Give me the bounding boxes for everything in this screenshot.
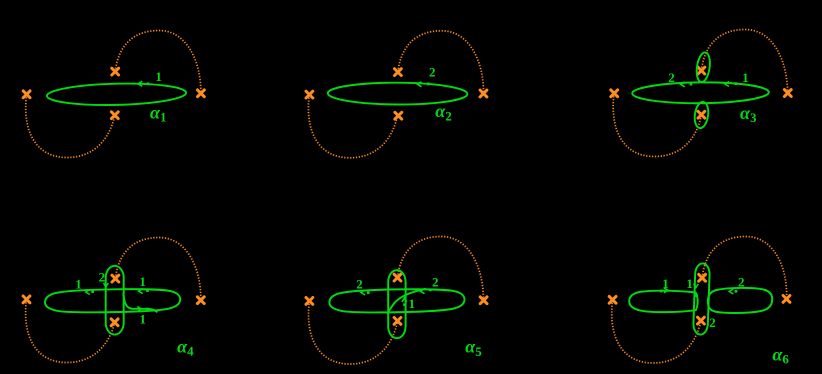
branch point X left P6 (609, 296, 616, 303)
svg-text:1: 1 (75, 277, 82, 292)
branch cut arc bottom P6 (612, 300, 701, 363)
svg-text:1: 1 (742, 70, 749, 85)
arrowhead left on alpha6 (664, 288, 668, 293)
svg-text:1: 1 (409, 296, 416, 311)
arrowhead bump on alpha4 (137, 307, 141, 312)
dot up on alpha5 (403, 303, 406, 306)
dot mid on alpha6 (695, 294, 698, 297)
branch point X right P6 (783, 296, 790, 303)
arrowhead right on alpha5 (421, 289, 425, 294)
curve alpha3 big ellipse (632, 82, 769, 104)
arrowhead right-top on alpha4 (139, 289, 143, 294)
svg-text:2: 2 (432, 274, 439, 289)
arrowhead up on alpha5 (402, 298, 407, 302)
curve alpha1 ellipse (47, 82, 187, 106)
svg-text:1: 1 (155, 69, 162, 84)
branch cut arc bottom P4 (26, 299, 115, 362)
branch point X right P2 (480, 90, 487, 97)
dot right on alpha6 (735, 290, 738, 293)
branch point X bottom P6 (698, 317, 705, 324)
branch point X bottom P2 (395, 112, 402, 119)
branch point X top P2 (395, 69, 402, 76)
svg-text:2: 2 (738, 274, 745, 289)
curve alpha4 vertical capsule (106, 266, 124, 335)
dot right-top on alpha4 (146, 289, 149, 292)
branch point X bottom P1 (111, 112, 118, 119)
branch point X left P4 (23, 296, 30, 303)
branch point X top P3 (698, 67, 705, 74)
branch point X left P5 (306, 298, 313, 305)
curve alpha3 bottom loop (693, 101, 710, 129)
arrowhead left on alpha3 (681, 82, 685, 87)
branch cut arc top P3 (701, 30, 787, 93)
branch point X top P1 (112, 68, 119, 75)
branch point X right P4 (197, 297, 204, 304)
curve alpha2 ellipse (328, 82, 468, 105)
arrowhead right on alpha3 (725, 82, 729, 87)
branch point X top P5 (394, 274, 401, 281)
branch cut arc top P4 (115, 238, 200, 301)
branch cut arc bottom P5 (309, 301, 398, 364)
svg-text:1: 1 (662, 276, 669, 291)
branch point X left P3 (611, 90, 618, 97)
svg-text:2: 2 (668, 70, 675, 85)
branch point X bottom P3 (698, 111, 705, 118)
curve alpha5 diagonal (387, 289, 426, 314)
branch point X right P1 (198, 90, 205, 97)
branch cut arc top P5 (398, 237, 484, 301)
dot on alpha2 (427, 83, 430, 86)
branch point X top P6 (699, 274, 706, 281)
curve alpha6 right lobe (708, 288, 772, 313)
branch point X top P4 (112, 275, 119, 282)
svg-text:1: 1 (686, 276, 693, 291)
svg-text:2: 2 (429, 65, 436, 80)
branch cut arc bottom P2 (308, 95, 397, 158)
dot left on alpha3 (690, 83, 693, 86)
branch point X bottom P5 (394, 318, 401, 325)
curve alpha3 top loop (695, 52, 712, 83)
dot right on alpha3 (734, 82, 737, 85)
branch point X left P1 (23, 91, 30, 98)
dot bump on alpha4 (146, 308, 149, 311)
arrowhead down mid on alpha6 (694, 284, 699, 288)
dot on alpha1 (147, 83, 150, 86)
curve alpha4 bump (123, 293, 157, 312)
branch cut arc top P1 (115, 31, 201, 94)
arrowhead left on alpha5 (361, 290, 365, 295)
svg-text:2: 2 (99, 269, 106, 284)
arrowhead on alpha1 (138, 81, 142, 86)
dot right on alpha5 (429, 289, 432, 292)
branch cut arc top P6 (702, 237, 786, 299)
branch cut arc top P2 (398, 31, 484, 94)
svg-text:1: 1 (140, 311, 147, 326)
arrowhead right on alpha6 (729, 289, 733, 294)
curve alpha5 vertical capsule (388, 270, 405, 338)
curve alpha4 horizontal ellipse (45, 289, 180, 312)
svg-text:1: 1 (139, 274, 146, 289)
arrowhead down on alpha4 capsule (104, 283, 109, 287)
curve alpha6 vertical capsule (693, 263, 710, 335)
dot left on alpha4 (91, 290, 94, 293)
curve alpha5 horizontal ellipse (329, 289, 464, 312)
branch point X left P2 (306, 91, 313, 98)
arrowhead on alpha2 (418, 82, 422, 87)
dot left on alpha5 (367, 291, 370, 294)
svg-text:2: 2 (709, 315, 716, 330)
branch cut arc bottom P1 (26, 94, 115, 157)
arrowhead left on alpha4 (86, 290, 90, 295)
svg-text:2: 2 (356, 277, 363, 292)
branch point X right P3 (784, 90, 791, 97)
curve alpha6 left lobe (629, 291, 697, 312)
branch cut arc bottom P3 (613, 93, 701, 156)
dot left on alpha6 (660, 290, 663, 293)
branch point X right P5 (480, 297, 487, 304)
branch point X bottom P4 (111, 319, 118, 326)
